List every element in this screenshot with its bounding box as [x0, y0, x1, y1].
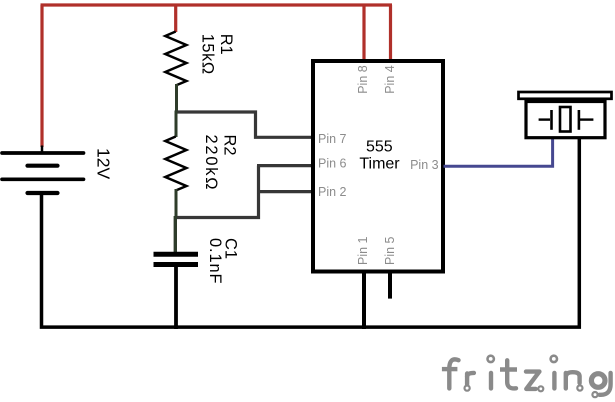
- svg-text:555: 555: [366, 138, 393, 155]
- buzzer top flange: [519, 92, 612, 99]
- wire node A to pin 7 (dark gray): [176, 112, 314, 137]
- wire R2 bottom lead (green): [175, 189, 178, 219]
- label 555 Timer: [359, 138, 400, 172]
- logo i dot 1: [488, 356, 494, 362]
- buzzer crystal left electrode: [550, 110, 553, 130]
- wire pin 1 to ground bus (black): [362, 271, 366, 329]
- fritzing watermark logo: [442, 356, 611, 398]
- wire R1 top riser (red): [174, 5, 177, 32]
- svg-text:Pin 1: Pin 1: [356, 236, 370, 265]
- wire to pin 2 (dark gray): [257, 190, 314, 193]
- wire R2 top lead (green): [175, 111, 178, 138]
- svg-text:Pin 2: Pin 2: [318, 185, 347, 199]
- wire C1 bottom to ground bus (black): [174, 267, 178, 330]
- svg-text:Pin 5: Pin 5: [383, 236, 397, 265]
- buzzer body: [526, 102, 605, 138]
- svg-text:R1: R1: [217, 34, 235, 55]
- svg-text:15kΩ: 15kΩ: [199, 34, 217, 75]
- logo f: [449, 359, 458, 388]
- wire node B: R2 bottom to pins 6 and 2 (dark gray): [176, 166, 259, 218]
- label R1 15kΩ: [199, 34, 236, 75]
- buzzer crystal right lead: [580, 118, 593, 120]
- svg-text:R2: R2: [220, 135, 238, 156]
- svg-text:Pin 3: Pin 3: [410, 158, 439, 172]
- buzzer crystal right electrode: [578, 110, 581, 130]
- IC U1 555 timer box: [313, 61, 443, 272]
- svg-text:Pin 7: Pin 7: [318, 132, 347, 146]
- wire to pin 4 (red): [389, 5, 392, 60]
- logo i dot 2: [551, 356, 557, 362]
- svg-text:Pin 8: Pin 8: [356, 65, 370, 94]
- label R2 220kΩ: [202, 135, 239, 192]
- capacitor C1: [154, 254, 199, 264]
- logo g: [591, 374, 605, 388]
- svg-text:Timer: Timer: [359, 155, 400, 172]
- logo t: [507, 360, 516, 388]
- resistor R2: [165, 137, 186, 191]
- wire to pin 6 (dark gray): [257, 164, 314, 167]
- logo r: [465, 374, 469, 385]
- wire battery positive riser (red): [40, 5, 43, 147]
- logo i stem 1: [489, 373, 493, 389]
- battery BAT1 12V: [2, 146, 84, 194]
- logo i stem 2: [552, 373, 556, 389]
- wire VCC top rail (red): [41, 3, 393, 6]
- pin label Pin 7: [318, 65, 439, 265]
- wire to pin 8 (red): [362, 5, 365, 60]
- buzzer crystal left lead: [539, 118, 550, 120]
- piezo buzzer LS1: [519, 92, 612, 138]
- wire C1 top lead (green): [174, 216, 177, 252]
- wire pin 5 stub (black): [388, 271, 392, 299]
- wire R1 bottom lead (green): [175, 84, 178, 113]
- svg-text:0.1nF: 0.1nF: [206, 238, 224, 284]
- svg-text:220kΩ: 220kΩ: [202, 135, 220, 192]
- logo n: [566, 372, 580, 388]
- wire pin 3 to buzzer (blue): [444, 137, 553, 166]
- resistor R1: [165, 32, 186, 86]
- label C1 0.1nF: [206, 238, 240, 284]
- svg-text:Pin 6: Pin 6: [318, 157, 347, 171]
- buzzer crystal plate: [560, 107, 571, 132]
- logo z: [526, 372, 539, 389]
- svg-text:12V: 12V: [94, 148, 114, 179]
- wire ground: battery down, bottom bus, up to buzzer (black): [42, 138, 580, 328]
- svg-text:Pin 4: Pin 4: [383, 65, 397, 94]
